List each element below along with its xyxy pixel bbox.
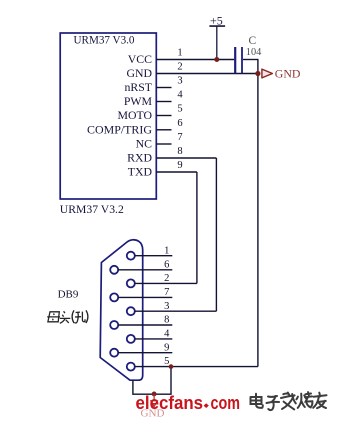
svg-text:PWM: PWM [124, 94, 153, 108]
pin 8 RXD wire horizontal [156, 157, 216, 159]
pin 7 stub [156, 143, 171, 145]
GND net vertical wire [257, 60, 259, 367]
junction dot at +5 on VCC wire [214, 57, 219, 62]
svg-text:6: 6 [164, 259, 169, 270]
svg-text:GND: GND [275, 69, 301, 81]
J1 pin 9 wire [118, 352, 172, 354]
char 电 [251, 394, 263, 408]
svg-text:GND: GND [126, 66, 152, 80]
svg-text:1: 1 [177, 48, 182, 59]
pin 6 stub [156, 129, 171, 131]
svg-text:104: 104 [246, 46, 262, 58]
pin 8 RXD wire vertical [215, 158, 217, 311]
GND arrow symbol top right [262, 69, 301, 81]
svg-text:6: 6 [177, 118, 182, 129]
J1 pin 1 wire [135, 255, 173, 257]
svg-text:COMP/TRIG: COMP/TRIG [87, 122, 152, 136]
pin 9 TXD wire horizontal [156, 171, 197, 173]
svg-text:VCC: VCC [128, 52, 152, 66]
J1 hole pin 3 [127, 307, 135, 315]
svg-text:TXD: TXD [128, 165, 153, 179]
svg-text:1: 1 [164, 245, 169, 256]
J1 pin 8 wire [118, 324, 172, 326]
svg-text:RXD: RXD [127, 151, 152, 165]
J1 hole pin 8 [110, 321, 118, 329]
J1 hole pin 2 [127, 279, 135, 287]
svg-text:MOTO: MOTO [117, 108, 152, 122]
pin 4 stub [156, 101, 171, 103]
+5 power symbol [209, 13, 225, 59]
svg-text:com: com [211, 393, 241, 413]
char 发 [281, 393, 296, 410]
watermark separator dot [204, 403, 209, 408]
svg-text:7: 7 [177, 132, 182, 143]
svg-text:3: 3 [164, 301, 169, 312]
svg-text:3: 3 [177, 76, 182, 87]
char 友 [313, 393, 326, 409]
J1 hole pin 4 [127, 335, 135, 343]
capacitor C plates [235, 47, 242, 73]
watermark 电子发烧友 drawn strokes [251, 392, 327, 410]
svg-text:2: 2 [164, 273, 169, 284]
svg-text:DB9: DB9 [58, 289, 79, 301]
svg-text:+5: +5 [210, 13, 223, 27]
junction dot GND net [255, 71, 260, 76]
svg-text:4: 4 [177, 90, 183, 101]
svg-text:5: 5 [177, 104, 182, 115]
svg-text:URM37 V3.0: URM37 V3.0 [74, 33, 135, 47]
svg-text:URM37 V3.2: URM37 V3.2 [60, 202, 124, 216]
pin 9 TXD wire vertical [196, 172, 198, 283]
junction dot on pin 5 wire [169, 364, 174, 369]
svg-text:9: 9 [177, 160, 182, 171]
J1 pin 2 wire to TXD [135, 282, 197, 284]
wire capacitor to GND corner [243, 59, 259, 61]
char 烧 [296, 392, 312, 408]
J1 pin 4 wire [135, 338, 173, 340]
J1 hole pin 7 [110, 293, 118, 301]
svg-text:elecfans: elecfans [136, 393, 204, 413]
pin 5 stub [156, 115, 171, 117]
J1 pin 5 wire to GND net [135, 366, 258, 368]
J1 shell ground stub wire [133, 367, 171, 395]
junction dot GND tap [152, 392, 157, 397]
pin 3 stub [156, 87, 171, 89]
svg-text:9: 9 [164, 342, 169, 353]
svg-text:4: 4 [164, 329, 170, 340]
svg-text:2: 2 [177, 62, 182, 73]
J1 hole pin 1 [127, 252, 135, 260]
pin 2 GND wire [156, 73, 258, 75]
J1 pin 6 wire [118, 269, 172, 271]
svg-text:7: 7 [164, 287, 169, 298]
label 母头(孔) drawn strokes [47, 310, 88, 323]
svg-text:nRST: nRST [124, 80, 152, 94]
IC U1 URM37 body [60, 33, 156, 199]
J1 hole pin 9 [110, 349, 118, 357]
svg-text:NC: NC [136, 137, 153, 151]
svg-text:8: 8 [177, 146, 182, 157]
svg-text:5: 5 [164, 356, 169, 367]
J1 hole pin 5 [127, 363, 135, 371]
J1 hole pin 6 [110, 266, 118, 274]
GND down arrow bottom [151, 394, 158, 406]
svg-text:8: 8 [164, 315, 169, 326]
pin 1 wire to capacitor [156, 59, 234, 61]
connector J1 DB9 shell [100, 240, 143, 380]
J1 pin 7 wire [118, 296, 172, 298]
char 子 [267, 396, 280, 410]
J1 pin 3 wire to RXD [135, 310, 217, 312]
